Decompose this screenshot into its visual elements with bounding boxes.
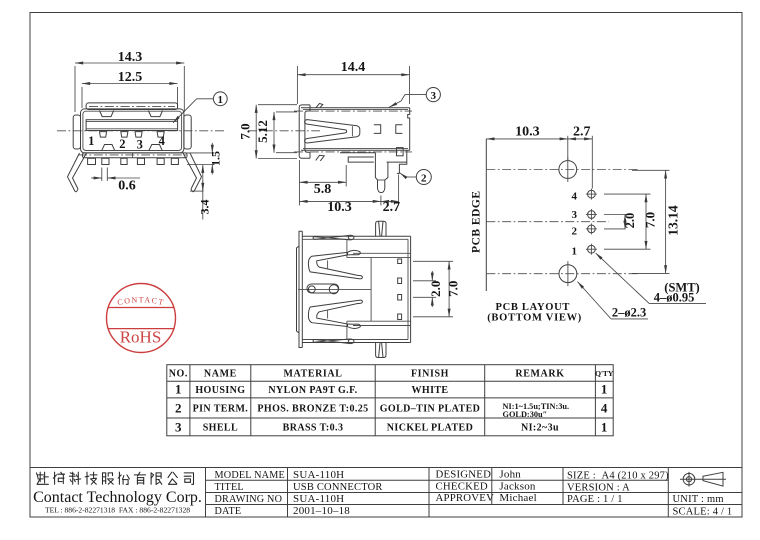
svg-text:12.5: 12.5 <box>118 70 143 85</box>
balloon 1 <box>173 92 227 123</box>
dim 5.8 <box>299 160 346 206</box>
centerline <box>57 130 226 132</box>
svg-text:SUA-110H: SUA-110H <box>293 493 344 505</box>
balloon 3 <box>389 88 440 108</box>
company name CJK strokes <box>0 0 1 1</box>
svg-text:UNIT : mm: UNIT : mm <box>673 494 724 505</box>
hole note <box>578 282 649 320</box>
bottom flange <box>83 153 188 158</box>
svg-text:CHECKED: CHECKED <box>436 480 488 492</box>
svg-text:REMARK: REMARK <box>515 369 564 380</box>
svg-text:DRAWING NO: DRAWING NO <box>215 494 283 505</box>
top edge spring <box>313 235 354 240</box>
bottom peg <box>376 343 386 358</box>
centerline left <box>248 130 320 132</box>
svg-text:2: 2 <box>421 172 427 184</box>
bottom ledge <box>340 152 376 154</box>
svg-text:7.0: 7.0 <box>238 123 253 139</box>
svg-text:MATERIAL: MATERIAL <box>283 369 342 380</box>
right foot <box>387 161 407 163</box>
svg-text:RoHS: RoHS <box>120 328 162 347</box>
svg-text:7.0: 7.0 <box>643 212 658 228</box>
svg-text:SIZE : A4 (210 x 297): SIZE : A4 (210 x 297) <box>567 470 669 481</box>
SMT pin <box>375 153 377 188</box>
svg-text:2.7: 2.7 <box>573 125 591 140</box>
bottom V hook <box>348 324 361 328</box>
housing edge <box>346 240 348 258</box>
shell inner wall <box>83 111 182 150</box>
dim 2.0 <box>604 213 637 229</box>
pins 1-4 <box>100 132 107 138</box>
svg-text:2.0: 2.0 <box>623 213 637 229</box>
svg-text:1: 1 <box>601 420 608 435</box>
svg-text:3.4: 3.4 <box>198 200 212 215</box>
svg-text:2: 2 <box>119 137 125 151</box>
dim 0.6 <box>91 168 140 194</box>
balloon 2 <box>400 170 431 185</box>
top V spring <box>308 252 362 278</box>
tongue <box>86 120 178 131</box>
svg-text:PCB EDGE: PCB EDGE <box>470 190 482 252</box>
svg-text:1: 1 <box>88 134 94 148</box>
top V hook <box>348 250 361 254</box>
body top edge <box>301 107 410 109</box>
dim 2.0 <box>413 271 443 307</box>
svg-text:Michael: Michael <box>499 492 536 504</box>
V spring <box>305 120 360 143</box>
svg-text:NI:2~3u: NI:2~3u <box>521 423 559 434</box>
svg-text:13.14: 13.14 <box>666 205 681 236</box>
left flange <box>299 231 302 347</box>
svg-text:14.4: 14.4 <box>341 60 366 75</box>
pcb edge line <box>485 139 487 291</box>
svg-text:1: 1 <box>175 382 182 397</box>
svg-text:7.0: 7.0 <box>446 281 461 297</box>
dim 7.0 left <box>238 105 298 159</box>
svg-text:Jackson: Jackson <box>499 480 536 492</box>
svg-text:NAME: NAME <box>204 369 237 380</box>
svg-text:HOUSING: HOUSING <box>195 385 245 396</box>
shell body <box>81 109 184 153</box>
svg-text:PIN TERM.: PIN TERM. <box>193 404 249 415</box>
svg-text:John: John <box>499 468 521 480</box>
bottom edge spring <box>313 339 354 344</box>
center bosses <box>307 284 339 293</box>
svg-text:2: 2 <box>175 401 182 416</box>
dim 5.12 <box>255 112 297 153</box>
svg-text:TITEL: TITEL <box>215 482 244 493</box>
top cover <box>86 103 178 110</box>
pin windows <box>398 259 402 264</box>
pads <box>586 189 597 255</box>
lower notches <box>102 145 115 151</box>
svg-text:3: 3 <box>572 209 578 221</box>
solder pad square <box>397 148 404 156</box>
svg-text:1: 1 <box>218 94 224 106</box>
svg-text:PAGE : 1 / 1: PAGE : 1 / 1 <box>567 494 623 505</box>
right ear <box>184 115 191 149</box>
dim 14.4 <box>297 60 409 104</box>
svg-text:14.3: 14.3 <box>118 50 143 65</box>
svg-text:NYLON PA9T G.F.: NYLON PA9T G.F. <box>268 385 357 396</box>
svg-text:3: 3 <box>175 420 182 435</box>
dim 7.0 <box>604 194 658 249</box>
svg-text:4: 4 <box>572 191 578 203</box>
dim 3.4 <box>190 165 212 220</box>
dim 10.3 / 2.7 <box>299 175 400 216</box>
svg-text:5.8: 5.8 <box>314 182 332 197</box>
top notches <box>100 111 114 117</box>
svg-text:3: 3 <box>137 138 143 152</box>
svg-text:SCALE: 4 / 1: SCALE: 4 / 1 <box>673 506 733 517</box>
svg-text:2–ø2.3: 2–ø2.3 <box>612 306 646 320</box>
svg-text:APPROVEV: APPROVEV <box>436 492 495 504</box>
svg-text:Q'TY: Q'TY <box>595 369 614 378</box>
svg-text:10.3: 10.3 <box>327 200 352 215</box>
svg-text:NO.: NO. <box>169 369 188 380</box>
projection symbol <box>680 472 726 487</box>
svg-text:4–ø0.95: 4–ø0.95 <box>654 291 695 305</box>
svg-text:1: 1 <box>601 382 608 397</box>
svg-text:2001–10–18: 2001–10–18 <box>293 505 350 517</box>
svg-text:USB CONNECTOR: USB CONNECTOR <box>293 482 383 493</box>
svg-text:VERSION : A: VERSION : A <box>567 482 630 493</box>
svg-text:PHOS. BRONZE T:0.25: PHOS. BRONZE T:0.25 <box>257 404 368 415</box>
svg-text:TEL : 886-2-82271318 FAX : 88: TEL : 886-2-82271318 FAX : 886-2-8227132… <box>45 506 190 515</box>
svg-text:NICKEL PLATED: NICKEL PLATED <box>387 423 473 434</box>
svg-text:SUA-110H: SUA-110H <box>293 469 344 481</box>
svg-text:(BOTTOM VIEW): (BOTTOM VIEW) <box>487 313 582 324</box>
svg-text:2.0: 2.0 <box>428 281 443 297</box>
svg-text:2: 2 <box>572 226 578 238</box>
svg-text:PCB LAYOUT: PCB LAYOUT <box>496 302 571 313</box>
svg-text:5.12: 5.12 <box>255 120 270 143</box>
svg-text:DATE: DATE <box>215 506 242 517</box>
svg-text:1.5: 1.5 <box>209 151 223 166</box>
dim 10.3 / 2.7 top <box>486 125 592 189</box>
contact base lines <box>353 252 411 254</box>
svg-text:WHITE: WHITE <box>411 385 448 396</box>
left ear <box>73 115 80 149</box>
svg-text:10.3: 10.3 <box>515 125 540 140</box>
hole bottom <box>559 265 577 283</box>
pin slot A <box>374 125 381 134</box>
svg-text:Contact Technology Corp.: Contact Technology Corp. <box>33 489 202 506</box>
top peg <box>376 221 386 236</box>
dim 1.5 <box>185 143 223 175</box>
svg-text:4: 4 <box>601 401 608 416</box>
svg-text:GOLD–TIN PLATED: GOLD–TIN PLATED <box>380 404 481 415</box>
dim 7.0 <box>413 261 461 317</box>
svg-text:BRASS T:0.3: BRASS T:0.3 <box>283 423 344 434</box>
svg-text:MODEL NAME: MODEL NAME <box>215 470 285 481</box>
svg-text:SHELL: SHELL <box>203 423 238 434</box>
shell outline <box>302 235 410 237</box>
body bottom edge <box>303 148 408 150</box>
left leg <box>68 153 80 191</box>
svg-text:2.7: 2.7 <box>383 200 401 215</box>
centerlines <box>486 169 640 171</box>
right leg <box>190 153 202 191</box>
svg-text:1: 1 <box>572 246 578 258</box>
center seam <box>298 288 371 290</box>
bottom tab <box>316 155 325 161</box>
bottom tabs <box>88 158 96 164</box>
bottom V spring <box>308 300 362 326</box>
svg-text:0.6: 0.6 <box>118 179 136 194</box>
svg-text:CONTACT: CONTACT <box>117 295 166 307</box>
svg-text:FINISH: FINISH <box>411 369 449 380</box>
top-left tab <box>316 103 323 107</box>
dim 14.3 <box>75 50 184 112</box>
smt note <box>596 253 706 305</box>
dim 12.5 <box>82 70 178 108</box>
left bracket <box>299 105 310 158</box>
svg-text:3: 3 <box>431 90 437 102</box>
dim 13.14 <box>632 170 681 273</box>
body right edge <box>408 108 410 151</box>
svg-text:DESIGNED: DESIGNED <box>436 468 492 480</box>
hole top <box>559 161 577 179</box>
svg-text:GOLD:30u″: GOLD:30u″ <box>503 410 548 419</box>
pin slot B <box>396 125 403 134</box>
